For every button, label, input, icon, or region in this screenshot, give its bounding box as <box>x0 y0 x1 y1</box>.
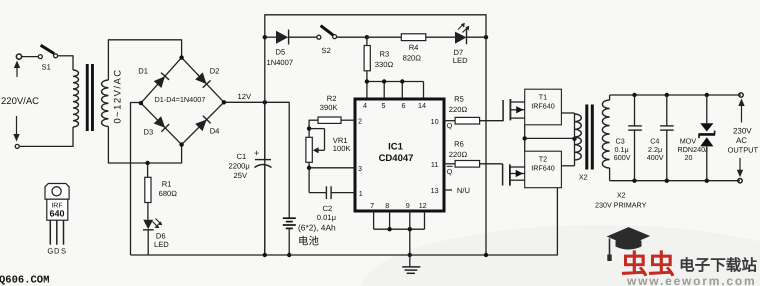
capacitor C2 0.01u <box>309 192 326 194</box>
svg-text:25V: 25V <box>234 171 248 180</box>
svg-text:12: 12 <box>419 201 427 210</box>
svg-text:220V/AC: 220V/AC <box>1 96 39 107</box>
node bridge right <box>222 100 226 104</box>
svg-text:D3: D3 <box>144 128 154 137</box>
svg-text:0~12V/AC: 0~12V/AC <box>113 68 124 123</box>
wire pin 3 <box>309 167 355 169</box>
IC bottom bus <box>373 211 375 229</box>
node 12V/C1 <box>263 100 267 104</box>
wire secondary to output rails <box>609 95 611 100</box>
svg-text:R6: R6 <box>454 140 464 149</box>
resistor R3 330 <box>366 37 368 45</box>
svg-text:Q606.COM: Q606.COM <box>0 274 49 286</box>
diode D2 <box>195 72 206 84</box>
node VR1 bottom / pin3 <box>307 166 311 170</box>
svg-text:D5: D5 <box>276 48 286 57</box>
svg-text:100K: 100K <box>333 144 351 153</box>
svg-text:390K: 390K <box>320 103 338 112</box>
node MOV top <box>705 93 709 97</box>
svg-text:C2: C2 <box>323 204 333 213</box>
svg-text:X2: X2 <box>617 190 626 199</box>
svg-text:S1: S1 <box>42 63 51 72</box>
wire bottom terminal to primary <box>19 145 73 147</box>
svg-text:G: G <box>47 247 53 256</box>
wire S2 to R3/R4 node <box>337 36 367 38</box>
node pin6 bus <box>400 79 404 83</box>
wire 12V down to battery <box>288 102 290 218</box>
capacitor C4 <box>666 95 668 126</box>
node C4 bottom <box>665 179 669 183</box>
svg-text:600V: 600V <box>614 153 631 162</box>
wire source link <box>524 125 526 151</box>
T1 drain to X2 top <box>561 112 574 114</box>
svg-text:11: 11 <box>431 160 438 169</box>
arrow output bottom <box>739 158 741 172</box>
svg-text:R1: R1 <box>162 180 172 189</box>
terminal AC top <box>16 54 21 59</box>
terminal AC bottom <box>15 144 19 148</box>
node X2 center tap <box>572 137 576 141</box>
svg-text:5: 5 <box>382 101 386 110</box>
svg-text:D: D <box>54 247 60 256</box>
svg-text:R5: R5 <box>454 95 464 104</box>
wire R6 to T2 gate <box>480 163 503 165</box>
wire pin 13 N/U <box>444 189 452 191</box>
wire bridge bottom vertex stub <box>181 145 183 164</box>
switch S1 <box>22 56 39 58</box>
svg-text:OUTPUT: OUTPUT <box>728 146 759 155</box>
wire right drop <box>485 14 487 255</box>
svg-text:电子下载站: 电子下载站 <box>679 257 757 275</box>
node R3/R4 <box>365 35 369 39</box>
node D5 tap <box>263 35 267 39</box>
svg-text:8: 8 <box>385 201 389 210</box>
transistor T1 box <box>525 89 562 125</box>
node bridge top <box>179 55 183 59</box>
node MOV bottom <box>705 179 709 183</box>
svg-text:640: 640 <box>49 209 64 219</box>
svg-text:3: 3 <box>358 164 362 173</box>
diode D5 1N4007 <box>265 36 276 38</box>
svg-text:D1-D4=1N4007: D1-D4=1N4007 <box>155 95 206 104</box>
resistor R4 820 <box>367 36 401 38</box>
T2 drain to X2 bottom <box>561 165 574 167</box>
potentiometer VR1 100K <box>309 128 324 130</box>
svg-text:T2: T2 <box>539 154 547 163</box>
transformer primary coil <box>73 70 78 127</box>
transformer secondary coil <box>102 80 109 127</box>
svg-text:D6: D6 <box>156 232 166 241</box>
X2 secondary coil <box>602 100 609 168</box>
svg-text:Q: Q <box>447 167 453 176</box>
terminal output top <box>739 93 743 97</box>
transistor T1 IRF640 symbol <box>502 100 504 121</box>
wire center tap <box>525 137 575 139</box>
svg-text:X2: X2 <box>579 173 588 182</box>
node battery rail <box>287 253 291 257</box>
IRF640 package TO-220 <box>45 184 69 200</box>
diode D4 <box>195 120 207 132</box>
arrow output top <box>741 103 743 123</box>
node pin8 bus <box>387 227 391 231</box>
svg-text:820Ω: 820Ω <box>403 54 422 63</box>
wire D6 to ground rail <box>147 230 149 255</box>
switch S2 <box>317 35 321 39</box>
arrow down to bottom terminal <box>16 116 18 136</box>
svg-text:D4: D4 <box>210 127 220 136</box>
svg-text:20: 20 <box>685 153 693 162</box>
svg-text:1: 1 <box>359 189 363 198</box>
node C3 bottom <box>632 179 636 183</box>
node right drop rail <box>484 253 488 257</box>
svg-text:0.01μ: 0.01μ <box>317 213 336 222</box>
LED D6 <box>143 220 153 230</box>
node C3 top <box>632 93 636 97</box>
LED D7 <box>455 32 467 44</box>
node bridge left <box>139 101 143 105</box>
svg-text:R4: R4 <box>409 43 419 52</box>
node R1 tap <box>145 161 149 165</box>
wire R1 to D6 <box>147 203 149 220</box>
wire R4 to D7 <box>426 36 455 38</box>
watermark graduation cap <box>607 227 651 245</box>
battery 12V <box>283 217 296 219</box>
svg-text:D2: D2 <box>210 67 220 76</box>
terminal output bottom <box>738 179 742 183</box>
svg-text:LED: LED <box>154 240 169 249</box>
capacitor C1 2200u <box>264 102 266 159</box>
transistor T2 box <box>525 151 562 188</box>
bridge arm wires <box>141 58 182 104</box>
node source link <box>523 136 527 140</box>
node ground rail <box>408 253 412 257</box>
resistor R2 390K <box>341 119 355 121</box>
svg-text:330Ω: 330Ω <box>375 60 394 69</box>
wire bridge negative down <box>131 102 141 104</box>
wire IC top bus <box>366 81 423 83</box>
svg-text:www.eeworm.com: www.eeworm.com <box>626 274 756 286</box>
svg-text:7: 7 <box>370 201 374 210</box>
diode D3 <box>154 116 166 128</box>
svg-text:(6*2), 4Ah: (6*2), 4Ah <box>298 223 336 233</box>
svg-text:S: S <box>61 247 66 256</box>
svg-text:9: 9 <box>406 201 410 210</box>
resistor R1 680 <box>147 163 149 177</box>
svg-text:10: 10 <box>431 117 439 126</box>
node pin4 bus <box>365 79 369 83</box>
op-amp U1 : IC1 CD4047 box <box>355 99 444 211</box>
node C4 top <box>665 93 669 97</box>
svg-text:IRF640: IRF640 <box>531 163 555 172</box>
wire D5 to S2 <box>289 36 317 38</box>
node pin5 bus <box>382 79 386 83</box>
wire top rail <box>265 14 486 16</box>
diode D1 <box>154 76 165 88</box>
svg-text:N/U: N/U <box>457 186 470 195</box>
node right drop top <box>484 35 488 39</box>
transformer core <box>86 64 89 131</box>
wire S1 to transformer primary <box>58 55 73 57</box>
arrow up to top terminal <box>16 65 18 78</box>
svg-text:AC: AC <box>736 136 747 145</box>
X2 primary coil <box>574 113 576 166</box>
svg-text:Q: Q <box>447 121 453 130</box>
wire 12V rail <box>226 101 289 103</box>
wire R5 to T1 gate <box>480 120 504 122</box>
svg-text:13: 13 <box>431 186 439 195</box>
resistor R5 220 <box>444 120 455 122</box>
X2 core <box>585 105 588 170</box>
svg-text:220Ω: 220Ω <box>449 150 468 159</box>
svg-text:D1: D1 <box>138 67 148 76</box>
svg-text:230V PRIMARY: 230V PRIMARY <box>595 200 647 209</box>
svg-text:4: 4 <box>363 101 367 110</box>
node C1 rail <box>263 253 267 257</box>
svg-text:6: 6 <box>402 101 406 110</box>
capacitor C3 <box>634 95 636 126</box>
svg-text:CD4047: CD4047 <box>379 153 414 164</box>
svg-text:S2: S2 <box>322 46 331 55</box>
svg-text:R3: R3 <box>380 50 390 59</box>
svg-text:R2: R2 <box>327 94 337 103</box>
wire secondary bottom <box>107 127 109 164</box>
node pin9 bus <box>408 227 412 231</box>
varistor MOV RDN240/20 <box>706 95 708 123</box>
node VR1 top <box>307 126 311 130</box>
svg-text:IC1: IC1 <box>388 142 404 153</box>
resistor R6 220 <box>444 163 455 165</box>
svg-text:230V: 230V <box>733 127 752 136</box>
svg-text:IRF640: IRF640 <box>531 101 555 110</box>
svg-text:14: 14 <box>418 101 426 110</box>
svg-text:2: 2 <box>358 117 362 126</box>
node bridge bottom <box>179 142 183 146</box>
svg-text:C1: C1 <box>237 152 247 161</box>
transistor T2 IRF640 symbol <box>502 164 504 186</box>
svg-text:2200μ: 2200μ <box>229 162 250 171</box>
wire secondary top to bridge <box>107 40 109 80</box>
svg-text:12V: 12V <box>238 92 252 101</box>
svg-text:680Ω: 680Ω <box>159 189 178 198</box>
svg-text:1N4007: 1N4007 <box>267 58 294 67</box>
wire rail up to T2 <box>556 188 558 256</box>
svg-text:T1: T1 <box>539 92 547 101</box>
wire D7 to right drop <box>467 36 487 38</box>
svg-text:220Ω: 220Ω <box>449 105 468 114</box>
svg-text:400V: 400V <box>647 153 664 162</box>
svg-text:+: + <box>254 148 259 158</box>
wire bus to rail <box>409 229 411 255</box>
svg-text:LED: LED <box>453 56 468 65</box>
ground <box>409 255 411 267</box>
svg-text:电池: 电池 <box>298 236 319 248</box>
wire ground rail <box>131 254 558 256</box>
